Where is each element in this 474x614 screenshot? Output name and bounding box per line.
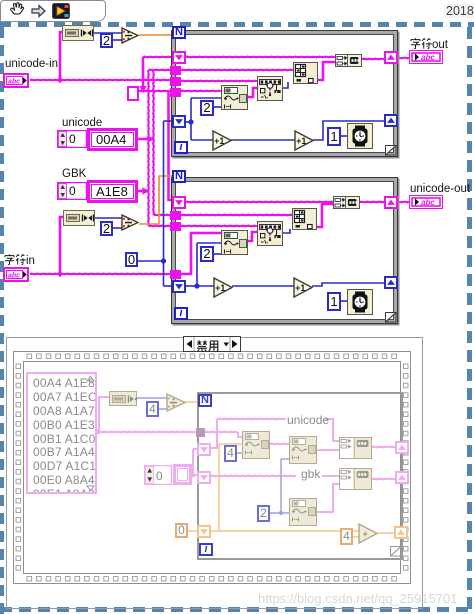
wait ms U11 loop1 — [347, 123, 373, 149]
wire A1E8 constant into bundle v1 — [138, 190, 149, 193]
wire loop1 result to 字符out indicator — [397, 57, 410, 59]
wire tunnel to subset icon A loop3 — [205, 431, 238, 433]
loop2 right shift register (int) — [384, 276, 398, 289]
wire blue shift reg loop2 — [186, 285, 197, 287]
string subset D (disabled) — [289, 498, 317, 526]
add node (disabled) — [358, 523, 378, 544]
wire blue to string subset offset loop2 — [197, 242, 222, 244]
wire increment to increment loop2 — [232, 285, 295, 287]
wire constant 0 to shift registers — [137, 260, 164, 262]
wire empty string to left shift register loop2 — [169, 91, 177, 200]
wire empty string constant to tunnel t3 loop1 — [139, 90, 176, 92]
toolbar run icon — [52, 3, 70, 19]
wire bundle v2 into loop2 tunnel t1 — [154, 214, 177, 216]
constant 2 for divide U2 — [100, 221, 113, 236]
junction arrow 00A4 on bundle v2 — [147, 135, 154, 142]
loop3 tunnel (disabled) — [196, 428, 205, 437]
loop2 corner fold — [385, 312, 397, 323]
string constant A1E8 — [87, 180, 138, 203]
string length U6 — [63, 210, 95, 226]
label unicode (disabled) — [287, 413, 329, 427]
wire blue to icon D — [281, 512, 290, 514]
wire loop1 shift reg string to concatenate — [186, 56, 336, 58]
wire shift reg f1 up — [211, 419, 217, 448]
svg-text:+1: +1 — [214, 136, 224, 146]
list constant scroll arrows — [86, 375, 95, 493]
wire t1 to index icon loop2 — [181, 214, 293, 216]
wire add to right tunnel — [377, 532, 395, 534]
loop1 left shift register (int) — [172, 115, 186, 128]
constant 1 wait loop1 — [327, 127, 341, 146]
label 字符out — [410, 38, 448, 51]
loop3 corner fold — [390, 546, 402, 557]
label GBK — [62, 168, 86, 180]
string subset U12 loop2 — [221, 230, 248, 255]
wire concatenate out to right shift reg loop1 — [362, 58, 385, 60]
string length U5 — [62, 25, 94, 41]
increment Q3 loop2 — [213, 277, 233, 298]
wire constant 1 to wait ms loop1 — [340, 135, 348, 137]
wire concatenate out to right shift reg loop2 — [360, 201, 385, 203]
wire blue to icon B — [281, 458, 290, 460]
loop3 count terminal N — [198, 394, 212, 407]
loop2 iteration terminal — [174, 307, 188, 320]
selector text 禁用 — [196, 338, 220, 356]
wire constant 4 to subset icon A — [237, 452, 243, 454]
wire increment to increment loop1 — [231, 139, 296, 141]
concatenate strings U10 loop1 — [335, 54, 362, 67]
empty constant (disabled) — [173, 464, 192, 485]
loop1 tunnel t1 — [170, 66, 181, 75]
junction blue loop1 — [188, 119, 193, 124]
wire increment out to right blue shift reg loop2 — [312, 283, 385, 286]
wire blue branch loop3 — [280, 459, 282, 513]
wire constant 4 to divide U3 — [159, 408, 167, 410]
wire String Length 3 to divide U3 — [137, 397, 167, 399]
wire constant 0 to orange shift reg — [188, 530, 198, 532]
spinner GBK index — [57, 182, 87, 200]
svg-text:0: 0 — [69, 184, 76, 198]
wire string-subset out to search loop2 — [248, 232, 258, 241]
wire increment out to right blue shift reg loop1 — [313, 121, 385, 140]
svg-text:abc: abc — [8, 273, 20, 280]
wire into loop2 blue shift register — [164, 285, 177, 287]
junction blue loop3 — [279, 511, 283, 515]
outer dashed frame right — [467, 27, 472, 614]
wire index out to concatenate loop2 — [317, 204, 334, 227]
year label 2018 — [444, 4, 474, 18]
svg-text:+1: +1 — [215, 283, 225, 293]
wire concat C2 to right tunnel — [372, 478, 396, 480]
for loop 2 frame — [171, 177, 398, 324]
wire to increment Q1 loop1 — [191, 139, 214, 141]
label 字符in — [4, 254, 35, 267]
wire orange vertical loop3 — [218, 444, 220, 531]
loop2 tunnel t2 — [170, 222, 181, 231]
wire search out to index icon loop2 — [283, 229, 290, 233]
wait ms U16 loop2 — [347, 289, 373, 315]
constant 0 shift register init — [125, 252, 138, 267]
divide U1 — [121, 27, 139, 44]
constant 2 subset length loop2 — [200, 246, 214, 262]
wire into loop1 blue shift register — [164, 120, 177, 122]
junction on unicode-in wire — [57, 77, 63, 83]
concatenate strings U15 loop2 — [333, 196, 360, 209]
loop1 iteration terminal — [174, 141, 188, 154]
wire 0-cluster up branch — [192, 449, 194, 475]
loop3 shift register count (disabled) — [197, 525, 211, 538]
string indicator 字符out — [409, 50, 443, 64]
list constant unicode-GBK table — [26, 372, 97, 494]
wire vertical 0 init for both loops — [163, 121, 165, 286]
for loop 3 frame (disabled) — [197, 392, 403, 560]
concat C1 (disabled) — [339, 437, 372, 459]
wire shift reg f2 gbk — [211, 475, 296, 477]
wire divide U2 to loop2 N — [139, 176, 176, 224]
wire constant 2 loop3 — [270, 512, 281, 514]
junction arrow on empty-string wire — [139, 86, 146, 93]
increment Q1 loop1 — [212, 130, 232, 151]
wire 字符in string to loop2 tunnel t3 — [30, 273, 171, 275]
string length U17 (disabled) — [109, 391, 137, 406]
constant 4 (disabled) — [146, 401, 159, 417]
wire list constant to String Length 3 — [99, 397, 110, 432]
loop3 right tunnel count (disabled) — [394, 526, 408, 539]
wire string-subset out to search loop1 — [248, 88, 258, 97]
constant 4 subset (disabled) — [224, 445, 237, 462]
wire vertical bundle v1 (GBK hex) — [148, 70, 150, 226]
wire loop2 result to unicode-out indicator — [397, 201, 410, 203]
svg-text:+1: +1 — [295, 283, 305, 293]
loop1 right shift register (int) — [384, 114, 398, 127]
wire unicode result loop3 — [217, 418, 286, 420]
loop3 right tunnel gbk (disabled) — [395, 471, 409, 484]
spinner 0 (disabled) — [144, 465, 172, 485]
label gbk (disabled) — [301, 467, 320, 481]
string subset B (disabled) — [289, 436, 317, 464]
empty string constant — [127, 86, 139, 101]
watermark — [258, 591, 458, 606]
wire constant 2 to divide U1 — [113, 39, 122, 41]
loop1 tunnel t3 — [170, 88, 181, 97]
loop2 tunnel t1 — [170, 211, 181, 220]
svg-text:abc: abc — [8, 79, 20, 86]
increment Q2 loop1 — [294, 130, 314, 151]
wire search out to index icon loop1 — [283, 82, 288, 88]
wire vertical empty-string branch up — [142, 57, 145, 91]
diagram disable structure border — [13, 351, 411, 584]
wire elbow into subset icon A — [238, 432, 243, 437]
search string U8 loop1 — [257, 76, 283, 101]
index array U14 loop2 — [292, 208, 317, 230]
wire constant 1 to wait ms loop2 — [340, 300, 348, 302]
string subset A (disabled) — [242, 431, 270, 459]
toolbar arrow icon — [30, 2, 47, 19]
wire hex bundle to tunnel t1 loop1 — [149, 69, 177, 71]
label unicode-in — [5, 58, 58, 70]
wire unicode-in to String Length 1 — [60, 32, 63, 80]
concat C2 (disabled) — [339, 468, 372, 490]
string control unicode-in — [3, 73, 29, 88]
loop2 count terminal N — [172, 170, 186, 183]
loop2 left shift register (int) — [172, 280, 186, 293]
loop1 tunnel t2 — [170, 77, 181, 86]
outer dashed frame top — [0, 22, 474, 27]
wire unicode into concat C1 — [325, 419, 340, 441]
wire blue branch loop1 — [190, 98, 192, 140]
wire constant 2 to string subset length loop1 — [213, 106, 222, 108]
toolbar hand tool icon — [7, 2, 25, 20]
loop2 left shift register (string) — [172, 196, 186, 209]
svg-text:abc: abc — [421, 198, 435, 207]
loop3 shift register gbk (disabled) — [197, 471, 211, 484]
toolbar tab background — [0, 0, 106, 22]
loop2 right shift register (string) — [384, 196, 398, 209]
wire divide U3 to loop3 N — [185, 401, 199, 403]
wire blue shift reg loop1 — [186, 121, 191, 123]
divide U2 — [121, 214, 139, 231]
wire concat C1 to right tunnel — [372, 446, 396, 448]
wire 0-cluster to shift register f1 — [193, 448, 198, 450]
wire String Length 2 to divide U2 — [95, 217, 122, 219]
wire gbk into concat C2 — [322, 475, 340, 477]
wire unicode-in string to loop1 tunnel t2 — [30, 79, 171, 81]
wire t2 to search icon loop1 — [181, 80, 258, 82]
wire icon A to icon B — [270, 443, 290, 445]
wire index out to concatenate loop1 — [318, 62, 336, 80]
constant 2 (disabled) — [257, 505, 270, 522]
wire icon D to concat C2 — [317, 484, 340, 512]
constant 0 orange (disabled) — [175, 523, 188, 538]
wire vertical bundle v2 (unicode hex) — [153, 70, 155, 215]
loop3 iteration terminal — [199, 543, 213, 556]
svg-text:+1: +1 — [296, 136, 306, 146]
wire 00A4 constant into bundle v2 — [138, 138, 154, 141]
wire to increment Q3 loop2 — [197, 285, 215, 287]
svg-text:+: + — [363, 529, 368, 539]
wire icon B to concat C1 — [317, 449, 340, 451]
wire constant 4 to add — [353, 536, 359, 538]
string control 字符in — [3, 267, 29, 282]
string indicator unicode-out — [409, 195, 443, 209]
loop1 count terminal N — [172, 26, 186, 39]
svg-text:0: 0 — [156, 469, 163, 483]
outer case frame bottom section — [6, 337, 423, 609]
index array U9 loop1 — [293, 62, 318, 84]
loop3 right tunnel unicode (disabled) — [395, 441, 409, 454]
wire 0-cluster to shift register f2 — [193, 474, 198, 476]
label unicode — [62, 117, 102, 129]
svg-text:abc: abc — [421, 53, 435, 62]
constant 1 wait loop2 — [327, 292, 341, 311]
wire blue branch loop2 — [196, 243, 198, 286]
wire t3 to string subset loop1 — [181, 90, 222, 92]
wire list constant to loop3 tunnel — [98, 431, 197, 433]
wire constant 2 to string subset length loop2 — [214, 253, 222, 255]
loop1 left shift register (string) — [172, 51, 186, 64]
divide U3 (disabled) — [166, 393, 186, 412]
wire orange to icon A — [219, 443, 243, 445]
junction on 字符in wire — [57, 271, 63, 277]
wire blue to string subset offset loop1 — [191, 97, 222, 99]
increment Q4 loop2 — [293, 277, 313, 298]
wire t2 to search icon loop2 — [181, 225, 258, 227]
disable structure selector box — [183, 336, 241, 352]
for loop 1 frame — [171, 30, 398, 157]
outer dashed frame bottom — [0, 607, 474, 612]
constant 2 for divide U1 — [100, 33, 113, 48]
constant 2 subset length loop1 — [200, 100, 214, 116]
junction blue loop2 — [194, 283, 199, 288]
junction 0-wire — [161, 258, 166, 263]
junction 0-cluster output — [190, 472, 196, 478]
wire t3 to string subset loop2 — [181, 233, 222, 274]
label unicode-out — [410, 183, 470, 195]
wire t1 to index icon loop1 — [181, 69, 294, 71]
spinner unicode index — [57, 130, 87, 148]
search string U13 loop2 — [257, 221, 283, 246]
string subset U7 loop1 — [221, 85, 248, 110]
string constant 00A4 — [87, 128, 138, 151]
loop3 shift register unicode (disabled) — [197, 443, 211, 456]
wire constant 2 to divide U2 — [113, 227, 122, 229]
wire 字符in to String Length 2 — [60, 217, 65, 274]
loop1 corner fold — [385, 145, 397, 156]
wire orange shift reg to add — [211, 530, 359, 532]
svg-text:0: 0 — [69, 132, 76, 146]
wire divide U1 to loop1 N — [139, 34, 173, 36]
constant 4 orange (disabled) — [340, 528, 353, 545]
loop2 tunnel t3 — [170, 270, 181, 279]
loop1 right shift register (string) — [384, 51, 398, 64]
wire bundle v1 into loop2 tunnel t2 — [149, 225, 177, 227]
outer dashed frame left — [0, 27, 4, 614]
junction arrow A1E8 on bundle v1 — [142, 187, 149, 194]
wire loop2 shift reg string to concatenate — [186, 201, 334, 203]
wire String Length 1 to divide U1 — [94, 32, 122, 34]
wire empty string to left shift register loop1 — [143, 56, 176, 58]
junction list constant output — [95, 429, 101, 435]
